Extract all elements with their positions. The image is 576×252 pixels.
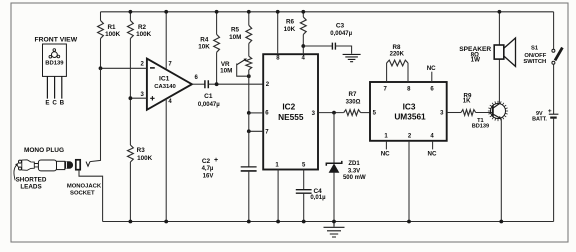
capacitor C1 0,0047u: [205, 80, 208, 88]
svg-text:MONO PLUG: MONO PLUG: [24, 147, 64, 154]
wire: [129, 12, 131, 21]
svg-text:UM3561: UM3561: [394, 112, 426, 122]
svg-text:ZD1: ZD1: [348, 161, 360, 167]
wire C3 to ground: [335, 46, 351, 54]
svg-text:IC2: IC2: [282, 101, 295, 111]
pin 3 IC3 output: [447, 112, 461, 114]
svg-text:4,7µ: 4,7µ: [202, 166, 214, 172]
svg-text:10K: 10K: [284, 26, 296, 33]
ground after C3: [343, 54, 361, 61]
wire T1 collector to speaker: [498, 59, 500, 104]
pin 4 IC1: [165, 99, 167, 222]
svg-text:BD139: BD139: [472, 124, 489, 130]
pin 1 IC3 NC: [385, 141, 387, 150]
node pin7 junction: [247, 129, 251, 133]
node emitter ground junction: [499, 220, 503, 224]
pin 1 IC2 to ground: [277, 170, 279, 222]
svg-text:NC: NC: [381, 151, 390, 158]
wire top supply bus: [101, 11, 554, 13]
svg-text:100K: 100K: [136, 31, 152, 38]
wire pin5 to C4: [303, 170, 305, 190]
svg-text:1W: 1W: [471, 57, 480, 64]
node top bus / pin8: [276, 10, 280, 14]
svg-text:BD139: BD139: [45, 61, 64, 67]
svg-text:S1: S1: [531, 46, 539, 52]
svg-text:IC1: IC1: [159, 76, 170, 83]
switch S1 on/off: [553, 12, 555, 49]
pin 8 IC2: [277, 12, 279, 54]
svg-text:10M: 10M: [229, 34, 241, 41]
svg-text:CA3140: CA3140: [154, 84, 176, 90]
svg-text:C1: C1: [204, 93, 213, 100]
svg-text:R5: R5: [231, 27, 240, 34]
svg-text:3.3V: 3.3V: [348, 169, 360, 175]
svg-text:C4: C4: [313, 188, 322, 195]
node R2-R3 / pin3 junction: [129, 96, 133, 100]
pin 6 IC2: [249, 112, 263, 114]
svg-text:R2: R2: [138, 24, 147, 31]
svg-text:B: B: [60, 100, 65, 107]
pin 4 IC3 NC: [432, 141, 434, 150]
resistor R9 1K: [461, 110, 476, 116]
svg-text:R4: R4: [200, 36, 209, 43]
resistor R6: [300, 17, 306, 34]
resistor R2: [127, 21, 133, 39]
resistor R3: [127, 145, 133, 162]
node R1 / pin2 junction: [99, 66, 103, 70]
svg-text:100K: 100K: [137, 155, 153, 162]
node pin6 junction: [247, 111, 251, 115]
capacitor C2 4,7u electrolytic: [248, 131, 250, 167]
node top bus / R5: [247, 10, 251, 14]
node top bus / R4: [215, 10, 219, 14]
wire: [302, 12, 304, 17]
node R4 / C1 line junction: [215, 82, 219, 86]
svg-text:500 mW: 500 mW: [343, 175, 366, 181]
node ZD1 ground junction: [332, 220, 336, 224]
node R6 / C3 junction: [301, 44, 305, 48]
svg-text:R7: R7: [349, 91, 357, 98]
pin 7 IC1: [165, 12, 167, 70]
op IC2 NE555 box: [263, 54, 318, 169]
wire: [248, 12, 250, 25]
svg-text:BATT.: BATT.: [532, 117, 547, 123]
node C2 ground junction: [247, 220, 251, 224]
svg-text:NC: NC: [427, 65, 436, 72]
pin 7 IC2: [249, 113, 263, 131]
svg-text:330Ω: 330Ω: [346, 100, 361, 106]
pin 3 IC2 output: [318, 112, 344, 114]
node top bus / pin7 junction: [164, 10, 168, 14]
svg-text:IC3: IC3: [403, 101, 416, 111]
wire R6 to pin 4: [302, 35, 304, 55]
wire VR to IC2 pins 6: [248, 70, 250, 113]
svg-text:NE555: NE555: [278, 112, 304, 122]
wire: [216, 52, 218, 84]
node R3 to ground bus: [129, 220, 133, 224]
node pin2 ground junction: [407, 220, 411, 224]
wire VR wiper loop: [237, 64, 249, 77]
svg-text:R6: R6: [286, 19, 295, 26]
wire: [100, 39, 102, 69]
svg-text:LEADS: LEADS: [20, 183, 41, 190]
svg-text:MONOJACK: MONOJACK: [67, 183, 102, 189]
node VR wiper junction: [247, 74, 251, 78]
svg-text:E: E: [45, 100, 49, 107]
transistor package front view BD139: [43, 44, 67, 76]
pin leads E C B: [47, 76, 61, 98]
svg-text:+: +: [548, 108, 552, 115]
svg-text:SWITCH: SWITCH: [523, 59, 546, 65]
svg-text:1K: 1K: [463, 99, 471, 105]
wire: [100, 12, 102, 21]
resistor R8 220K: [386, 63, 388, 82]
wire: [216, 12, 218, 35]
op-amp IC1 CA3140: [147, 59, 192, 110]
node top bus / speaker: [498, 10, 502, 14]
capacitor C3 0,0047u: [303, 45, 332, 47]
pin 2 IC1: [101, 67, 147, 69]
wire: [129, 98, 131, 145]
node C4 ground junction: [302, 220, 306, 224]
svg-text:R1: R1: [107, 24, 116, 31]
wire: [129, 39, 131, 99]
wire C4 to ground bus: [303, 193, 305, 221]
svg-text:SOCKET: SOCKET: [70, 191, 95, 197]
svg-text:+: +: [214, 157, 218, 164]
potentiometer VR 10M: [246, 56, 252, 70]
wire socket tip to IC1 pin 2 node: [90, 68, 101, 161]
svg-text:R3: R3: [137, 147, 146, 154]
svg-text:NC: NC: [428, 151, 437, 158]
wire ZD1 to ground bus: [333, 172, 335, 221]
pin 2 IC3 to ground: [408, 141, 410, 222]
svg-text:100K: 100K: [105, 31, 121, 38]
resistor R5: [246, 25, 252, 43]
node top bus / R6: [301, 10, 305, 14]
node top bus / R2 junction: [129, 10, 133, 14]
wire battery to ground bus: [553, 118, 555, 222]
svg-text:C: C: [52, 100, 57, 107]
svg-text:FRONT VIEW: FRONT VIEW: [34, 37, 77, 44]
wire T1 emitter to ground bus: [500, 119, 502, 222]
svg-text:R8: R8: [393, 44, 401, 51]
wire R7 to IC3 pin 5: [361, 112, 370, 114]
ground symbol bottom center: [324, 222, 345, 238]
node ZD1 junction: [332, 111, 336, 115]
wire R9 to T1 base: [476, 112, 493, 114]
wire: [248, 44, 250, 57]
zener diode ZD1 3.3V: [333, 113, 335, 164]
svg-text:0,0047µ: 0,0047µ: [198, 102, 220, 108]
svg-text:10M: 10M: [220, 68, 232, 75]
svg-text:16V: 16V: [203, 173, 214, 179]
speaker 8 ohm: [498, 12, 500, 45]
svg-text:0,0047µ: 0,0047µ: [330, 31, 352, 37]
svg-text:ON/OFF: ON/OFF: [524, 53, 546, 59]
wire C2 to ground bus: [248, 171, 250, 222]
wire socket sleeve to ground bus: [79, 170, 103, 222]
pin 6 IC1 output: [192, 83, 205, 85]
op IC3 UM3561 box: [370, 82, 447, 141]
transistor T1 BD139: [491, 104, 506, 119]
svg-text:220K: 220K: [390, 51, 405, 57]
monojack socket: [76, 160, 80, 170]
wire bottom ground bus: [103, 221, 554, 223]
battery 9V: [553, 64, 555, 114]
svg-text:C2: C2: [202, 158, 211, 165]
svg-text:C3: C3: [336, 22, 345, 29]
svg-text:0,01µ: 0,01µ: [310, 195, 326, 201]
svg-text:10K: 10K: [198, 44, 210, 51]
node pin1 ground junction: [276, 220, 280, 224]
pin 3 IC1: [130, 97, 147, 99]
node pin4 to ground bus: [164, 220, 168, 224]
pin 6 IC3 NC: [431, 72, 433, 82]
wire C1 to IC2 pin 2: [208, 83, 263, 85]
resistor R7 330ohm: [344, 110, 361, 116]
resistor R1: [98, 21, 104, 39]
wire: [129, 162, 131, 222]
resistor R4: [214, 34, 220, 52]
